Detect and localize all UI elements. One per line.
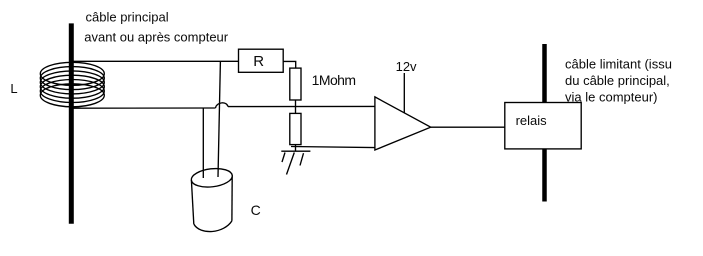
svg-text:relais: relais <box>516 113 548 128</box>
svg-text:L: L <box>10 81 17 96</box>
svg-text:câble principal: câble principal <box>86 9 169 24</box>
svg-text:avant ou après compteur: avant ou après compteur <box>84 30 228 45</box>
svg-text:R: R <box>253 53 264 70</box>
svg-text:1Mohm: 1Mohm <box>312 72 356 88</box>
svg-text:via le compteur): via le compteur) <box>565 90 657 105</box>
svg-text:12v: 12v <box>396 59 417 74</box>
svg-text:C: C <box>251 202 261 218</box>
svg-text:du câble principal,: du câble principal, <box>565 73 670 88</box>
svg-text:câble limitant (issu: câble limitant (issu <box>565 57 672 72</box>
